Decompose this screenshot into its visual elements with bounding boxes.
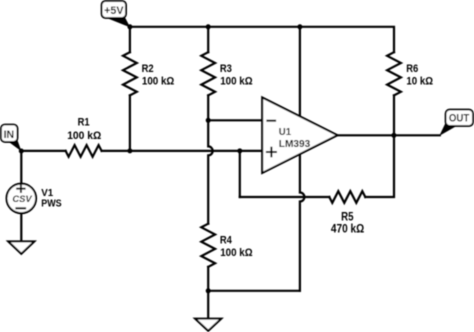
- junction node +5V rail / op-amp V+: [297, 24, 302, 29]
- op-amp plus input symbol: [266, 147, 277, 158]
- port OUT tail wedge: [439, 123, 456, 136]
- wire R2 bottom lead: [129, 95, 131, 150]
- wire plus node down: [239, 151, 241, 197]
- svg-text:R4: R4: [220, 235, 232, 247]
- resistor R3: [201, 52, 215, 95]
- wire output row: [338, 134, 440, 136]
- junction node +5V rail / R2: [127, 24, 132, 29]
- junction node minus input / R3 R4: [206, 118, 211, 123]
- svg-text:R1: R1: [78, 117, 90, 129]
- port IN tail wedge: [8, 140, 21, 152]
- wire top +5V rail: [130, 27, 394, 52]
- svg-text:100 kΩ: 100 kΩ: [220, 247, 253, 260]
- wire ground stub center: [207, 291, 209, 319]
- ground below V1: [8, 241, 34, 253]
- junction node output / R6 / R5: [391, 133, 396, 138]
- svg-text:R3: R3: [220, 64, 232, 76]
- resistor R6: [387, 52, 401, 95]
- V1 plus symbol: [16, 185, 25, 193]
- wire R5 left lead: [240, 196, 329, 198]
- wire R3 top lead: [207, 27, 209, 52]
- wire R4 node to op-amp V-: [208, 290, 300, 292]
- wire column node B to R4 with hop over IN row: [208, 120, 213, 223]
- junction node IN / V1: [19, 149, 24, 154]
- svg-text:CSV: CSV: [12, 193, 32, 204]
- svg-text:100 kΩ: 100 kΩ: [142, 75, 175, 88]
- svg-text:U1: U1: [279, 127, 292, 138]
- wire R6 bottom lead: [393, 95, 395, 135]
- wire op-amp V- pin with hop over R5 row: [300, 152, 305, 291]
- wire V1 top lead: [20, 151, 22, 184]
- svg-text:R6: R6: [406, 64, 418, 76]
- resistor R1: [66, 145, 102, 157]
- op-amp minus input symbol: [266, 120, 276, 122]
- junction node +5V rail / R3: [206, 24, 211, 29]
- wire R5 right lead up to output: [365, 135, 394, 197]
- wire R1 to plus input: [102, 150, 263, 152]
- port IN box: [1, 125, 18, 142]
- svg-text:100 kΩ: 100 kΩ: [67, 129, 101, 142]
- wire IN row: [21, 150, 65, 152]
- wire R2 top lead: [129, 27, 131, 52]
- wire op-amp V+ pin: [299, 27, 301, 118]
- junction node IN row / R2: [127, 148, 132, 153]
- port +5V tail wedge: [106, 18, 130, 28]
- resistor R2: [123, 52, 137, 95]
- port +5V box: [102, 1, 126, 18]
- V1 minus symbol: [15, 207, 26, 209]
- resistor R5: [329, 191, 365, 203]
- wire minus input row: [208, 119, 262, 121]
- junction node R4 / ground / op-amp V-: [206, 288, 211, 293]
- resistor R4: [201, 224, 215, 267]
- svg-text:+5V: +5V: [104, 5, 124, 17]
- svg-text:OUT: OUT: [449, 113, 470, 125]
- svg-text:470 kΩ: 470 kΩ: [331, 223, 365, 236]
- svg-text:R2: R2: [142, 64, 154, 76]
- wire R4 bottom lead: [207, 267, 209, 291]
- ground below R4: [195, 319, 221, 331]
- svg-text:IN: IN: [4, 129, 15, 141]
- junction node plus input / R5: [237, 148, 242, 153]
- op-amp U1 LM393 body: [262, 97, 337, 173]
- svg-text:LM393: LM393: [279, 139, 311, 150]
- wire V1 bottom lead: [20, 213, 22, 241]
- svg-text:100 kΩ: 100 kΩ: [220, 75, 253, 88]
- svg-text:PWS: PWS: [41, 198, 62, 210]
- wire R3 bottom lead: [207, 95, 209, 120]
- port OUT box: [446, 110, 473, 126]
- voltage source V1 circle: [6, 184, 36, 214]
- svg-text:10 kΩ: 10 kΩ: [406, 75, 433, 88]
